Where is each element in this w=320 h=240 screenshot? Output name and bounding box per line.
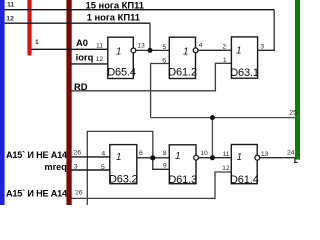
svg-text:13: 13	[261, 151, 269, 158]
svg-text:11: 11	[7, 1, 14, 8]
svg-text:8: 8	[163, 150, 167, 157]
svg-text:5: 5	[101, 164, 105, 171]
svg-text:1 нога КП11: 1 нога КП11	[87, 12, 140, 23]
svg-text:13: 13	[137, 42, 145, 49]
bus red A0	[27, 0, 31, 54]
wire U4 output to node B	[137, 157, 170, 159]
svg-text:4: 4	[199, 42, 203, 49]
svg-text:1: 1	[116, 152, 122, 163]
svg-text:25: 25	[289, 109, 297, 116]
wire 1-noga KP11 horizontal	[5, 22, 150, 24]
svg-text:D63.1: D63.1	[230, 67, 259, 79]
svg-text:26: 26	[75, 189, 83, 196]
op U5 D61.3 box	[168, 145, 197, 186]
wire U5 output to U6 pin 11	[199, 157, 232, 159]
svg-text:1: 1	[35, 39, 39, 46]
svg-text:iorq: iorq	[76, 51, 94, 62]
wire 24 U6 output to green bus	[260, 157, 295, 159]
wire U2 output to U3 input 2	[198, 49, 231, 51]
wire 15-noga KP11 horizontal	[5, 9, 275, 11]
svg-text:11: 11	[96, 43, 103, 50]
svg-text:1: 1	[237, 152, 243, 163]
wire A0	[31, 48, 107, 50]
svg-text:1: 1	[116, 47, 122, 58]
svg-text:10: 10	[200, 150, 208, 157]
wire 1-noga KP11 drop to node	[149, 23, 151, 50]
svg-text:1: 1	[223, 57, 227, 64]
wire iorq	[72, 63, 108, 65]
wire 25 to green bus	[151, 117, 295, 119]
wire mreq to U4 pin 5	[72, 169, 110, 171]
svg-text:D61.4: D61.4	[230, 174, 259, 186]
bus green (right rail)	[295, 0, 300, 160]
wire A15-1 to U4 pin 4	[72, 156, 110, 158]
bus blue (left power rail)	[0, 0, 5, 205]
wire RD	[72, 63, 232, 91]
green bus end mark	[295, 157, 298, 162]
svg-text:D61.3: D61.3	[168, 174, 197, 186]
op U2 D61.2 box	[168, 37, 197, 78]
svg-text:A15` И НЕ A14: A15` И НЕ A14	[6, 150, 68, 160]
wire bridge from below to node B	[87, 131, 153, 205]
svg-text:12: 12	[222, 165, 230, 172]
op U6 output bubble	[255, 155, 260, 160]
svg-text:26: 26	[74, 149, 82, 156]
wire node B to U5 pin 9	[153, 158, 170, 170]
svg-text:1: 1	[183, 46, 189, 57]
wire A15-2 to U6 pin 12	[72, 172, 232, 198]
wire U1 output to U2 input 5	[136, 49, 170, 51]
svg-text:6: 6	[162, 57, 166, 64]
op U3 D63.1 box	[230, 37, 259, 79]
junction node B	[150, 155, 155, 160]
svg-text:1: 1	[236, 46, 242, 57]
wire U2 input 6 down-left	[151, 64, 170, 118]
junction node A	[148, 48, 153, 53]
svg-text:D61.2: D61.2	[168, 67, 197, 79]
op U5 output bubble	[194, 155, 199, 160]
svg-text:12: 12	[96, 56, 104, 63]
junction node C	[210, 155, 215, 160]
svg-text:D63.2: D63.2	[109, 173, 138, 185]
op U6 D61.4 box	[230, 145, 259, 187]
svg-text:A0: A0	[76, 37, 88, 48]
svg-text:9: 9	[163, 163, 167, 170]
svg-text:RD: RD	[74, 81, 88, 92]
op U4 D63.2 box	[109, 145, 138, 186]
junction node 25	[210, 115, 215, 120]
wire 15-noga KP11 right drop	[258, 10, 275, 51]
svg-text:15 нога КП11: 15 нога КП11	[86, 0, 145, 10]
svg-text:A15` И НЕ A14: A15` И НЕ A14	[6, 189, 68, 199]
svg-text:4: 4	[101, 151, 105, 158]
svg-text:2: 2	[222, 43, 226, 50]
op U2 output bubble	[193, 48, 198, 53]
svg-text:5: 5	[163, 44, 167, 51]
svg-text:6: 6	[139, 150, 143, 157]
svg-text:1: 1	[175, 151, 181, 162]
svg-text:24: 24	[287, 150, 295, 157]
op U1 D65.4 box	[107, 37, 136, 78]
svg-text:12: 12	[6, 15, 14, 22]
svg-text:3: 3	[74, 163, 78, 170]
svg-text:mreq: mreq	[45, 162, 67, 172]
svg-text:D65.4: D65.4	[107, 67, 136, 79]
bus dark-red	[66, 0, 71, 205]
svg-text:3: 3	[260, 43, 264, 50]
wire node 25 drop	[211, 118, 213, 158]
svg-text:11: 11	[222, 151, 229, 158]
op U1 output bubble 13	[131, 48, 136, 53]
